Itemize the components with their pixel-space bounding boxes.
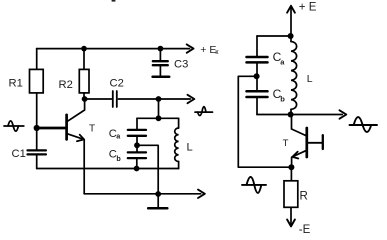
svg-text:R1: R1 bbox=[9, 78, 23, 90]
label -E bbox=[299, 224, 311, 236]
node R2 top junction bbox=[81, 46, 87, 52]
node tank top bbox=[156, 115, 162, 121]
inductor L (right) bbox=[291, 36, 297, 115]
wire emitter ground rail bbox=[84, 193, 201, 195]
svg-text:C2: C2 bbox=[110, 78, 124, 90]
label R2 bbox=[59, 79, 73, 91]
label L (right) bbox=[307, 73, 313, 85]
capacitor C2 bbox=[113, 91, 117, 107]
svg-text:a: a bbox=[280, 57, 285, 66]
wire Ca to tap bbox=[256, 62, 258, 76]
label T (left) bbox=[89, 124, 95, 135]
wire top supply rail bbox=[37, 48, 190, 50]
ground symbol bottom bbox=[148, 194, 167, 208]
node tap between Ca and Cb bbox=[134, 142, 140, 148]
node L bottom bbox=[288, 112, 294, 118]
capacitor Cb (right) bbox=[247, 76, 268, 114]
label C3 bbox=[174, 59, 188, 71]
capacitor C3 bbox=[153, 49, 168, 76]
inductor L (left) bbox=[175, 118, 179, 168]
label T (right) bbox=[283, 138, 289, 149]
arrow mid output (right) bbox=[340, 110, 347, 118]
label C1 bbox=[12, 148, 26, 160]
wire top node to Ca branch bbox=[257, 35, 291, 37]
label +Ek bbox=[200, 44, 219, 56]
wire tap to emitter (long) bbox=[238, 76, 291, 167]
svg-text:L: L bbox=[187, 141, 193, 153]
label Ca (right) bbox=[273, 50, 286, 66]
arrow supply +Ek bbox=[187, 44, 194, 52]
svg-text:C1: C1 bbox=[12, 148, 26, 160]
capacitor Ca (left tank) bbox=[128, 118, 146, 145]
label Cb (left) bbox=[109, 149, 122, 164]
capacitor Cb (left tank) bbox=[128, 145, 146, 168]
capacitor Ca (right) bbox=[247, 57, 268, 62]
svg-text:R: R bbox=[300, 191, 308, 203]
ground under C3 bbox=[153, 76, 170, 79]
svg-text:-E: -E bbox=[299, 224, 311, 236]
label Cb (right) bbox=[273, 87, 286, 104]
transistor T (left) bbox=[37, 99, 85, 194]
wire mid horizontal (right) bbox=[257, 114, 342, 116]
svg-text:b: b bbox=[116, 154, 121, 163]
svg-text:T: T bbox=[89, 124, 95, 135]
wire C1 to bottom bbox=[36, 154, 38, 168]
node ground rail junction bbox=[155, 191, 161, 197]
svg-text:+ E: + E bbox=[299, 2, 317, 14]
svg-text:T: T bbox=[283, 138, 289, 149]
wire down to Ca bbox=[256, 36, 258, 57]
base bar bbox=[305, 128, 308, 157]
svg-text:L: L bbox=[307, 73, 313, 85]
label Ca (left) bbox=[109, 128, 121, 140]
resistor R (right) bbox=[284, 167, 298, 225]
wire tank top vertical bbox=[158, 99, 160, 118]
label +E bbox=[299, 2, 317, 14]
wire tap to ground rail bbox=[137, 145, 158, 194]
sine symbol right output bbox=[350, 117, 378, 132]
base lead (thick) bbox=[37, 127, 66, 130]
resistor R1 bbox=[30, 49, 44, 150]
node C3 top junction bbox=[158, 46, 164, 52]
speck artifact at top edge bbox=[112, 0, 116, 2]
resistor R2 bbox=[79, 49, 89, 99]
capacitor C1 bbox=[28, 150, 46, 154]
svg-text:C3: C3 bbox=[174, 59, 188, 71]
wire tank top horizontal bbox=[137, 117, 179, 119]
node tank top rail junction bbox=[156, 96, 162, 102]
svg-text:R2: R2 bbox=[59, 79, 73, 91]
emitter lead with arrow bbox=[292, 150, 306, 157]
sine symbol at second rail output bbox=[195, 107, 213, 116]
label C2 bbox=[110, 78, 124, 90]
label R bbox=[300, 191, 308, 203]
node base junction bbox=[34, 125, 40, 131]
svg-text:+ E: + E bbox=[200, 44, 216, 56]
label R1 bbox=[9, 78, 23, 90]
sine symbol (between circuits) bbox=[242, 177, 266, 193]
collector lead bbox=[67, 99, 84, 121]
label L (left) bbox=[187, 141, 193, 153]
wire second rail right segment bbox=[118, 98, 190, 100]
node R2 bottom junction bbox=[82, 96, 88, 102]
node top right bbox=[288, 33, 294, 39]
wire bottom horizontal C1 to L bbox=[37, 168, 179, 170]
arrow second rail output bbox=[188, 95, 195, 103]
svg-text:a: a bbox=[116, 131, 121, 140]
svg-text:к: к bbox=[215, 47, 219, 56]
collector lead bbox=[292, 115, 307, 136]
transistor T (right) bbox=[292, 115, 323, 168]
base bar bbox=[65, 115, 68, 140]
svg-text:b: b bbox=[280, 95, 285, 104]
arrow ground rail output bbox=[198, 190, 205, 198]
sine symbol input bbox=[4, 121, 24, 131]
wire second rail left segment bbox=[85, 98, 112, 100]
node Cb bottom junction bbox=[134, 166, 140, 172]
base lead and end bar bbox=[307, 142, 323, 144]
arrow -E supply bbox=[287, 220, 295, 227]
arrow +E supply (right) bbox=[287, 6, 295, 36]
node tap (right tank) bbox=[254, 73, 260, 79]
node emitter junction (right) bbox=[288, 164, 294, 170]
emitter lead with arrow bbox=[67, 134, 84, 140]
